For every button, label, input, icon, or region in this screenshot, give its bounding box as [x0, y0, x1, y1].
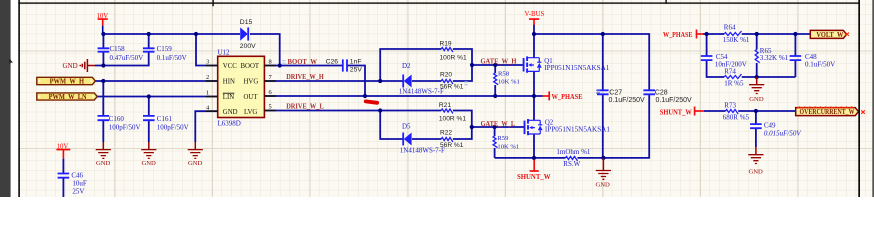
svg-text:LVG: LVG	[244, 109, 257, 116]
svg-text:D15: D15	[240, 19, 253, 26]
transistor Q2	[525, 119, 610, 135]
transistor Q1	[524, 56, 610, 72]
port VOLT_W	[810, 30, 849, 39]
svg-text:10K %1: 10K %1	[497, 143, 519, 150]
wire PWM_W_LN to pin1	[97, 96, 218, 98]
wire R65 leads	[756, 34, 758, 77]
svg-text:SHUNT_W: SHUNT_W	[660, 108, 692, 117]
svg-text:BOOT: BOOT	[241, 63, 260, 70]
wire GATE_W_H row	[472, 64, 524, 66]
wire 10V rail top	[103, 33, 240, 35]
svg-text:C28: C28	[655, 89, 668, 96]
wire C49 leads	[755, 111, 757, 147]
wire C161 leads	[148, 97, 150, 143]
pin 6 OUT	[264, 95, 276, 97]
svg-text:6: 6	[269, 89, 272, 96]
svg-text:GND: GND	[749, 169, 764, 176]
node LIN / C161	[147, 94, 151, 98]
wire D5/R22 branch	[380, 111, 472, 140]
capacitor C26 (bootstrap)	[326, 59, 363, 74]
wire HVG row pin7 to D2	[264, 80, 403, 82]
svg-text:3.32K %1: 3.32K %1	[760, 54, 789, 62]
wire R59 leads	[494, 127, 496, 158]
resistor R21	[439, 102, 466, 122]
node 10V rail / C158	[101, 32, 105, 36]
svg-text:GND: GND	[749, 96, 764, 103]
svg-text:0.1uF/250V: 0.1uF/250V	[656, 97, 693, 104]
svg-text:C46: C46	[71, 172, 83, 180]
resistor R59	[493, 135, 519, 150]
power port 10V (bottom)	[56, 143, 70, 158]
wire BOOT row pin8 to C26	[264, 65, 342, 67]
svg-text:VCC: VCC	[223, 63, 237, 70]
node SHUNT_W / Q2 source	[532, 156, 536, 160]
svg-text:GND: GND	[188, 160, 203, 167]
svg-text:BOOT_W: BOOT_W	[288, 57, 318, 66]
wire R58 leads	[494, 65, 496, 96]
wire GND* to C158/C159 bottoms	[95, 52, 149, 66]
svg-text:OUT: OUT	[244, 94, 259, 101]
ground symbol under C49	[748, 147, 763, 176]
node V-BUS / C27	[601, 32, 605, 36]
wires (dark navy)	[63, 25, 810, 198]
node R65 / R74 / C48 / GND	[755, 75, 759, 79]
wire C26 right to OUT row	[348, 66, 366, 97]
svg-text:R22: R22	[440, 130, 452, 137]
svg-text:8: 8	[269, 59, 272, 66]
wire C160 leads	[102, 81, 104, 142]
svg-text:GATE_W_H: GATE_W_H	[481, 56, 517, 65]
svg-text:0.1uF/50V: 0.1uF/50V	[157, 54, 187, 62]
power port 10V (top)	[97, 13, 109, 34]
node OUT / C26	[363, 94, 367, 98]
svg-text:5: 5	[269, 104, 272, 111]
svg-text:25V: 25V	[72, 187, 84, 195]
wire R21 to corner	[453, 111, 472, 128]
svg-text:1R %5: 1R %5	[724, 79, 744, 87]
svg-text:DRIVE_W_H: DRIVE_W_H	[286, 72, 324, 81]
pin 2 HIN	[206, 80, 218, 82]
svg-text:W_PHASE: W_PHASE	[663, 30, 693, 39]
port PWM_W_LN	[37, 93, 97, 101]
port OVERCURRENT_W	[796, 107, 865, 116]
svg-text:V-BUS: V-BUS	[525, 11, 545, 18]
svg-text:C160: C160	[109, 115, 125, 123]
wire pin4 to GND	[195, 111, 217, 142]
diode D5	[400, 123, 445, 155]
ground symbol R65/R74 node	[749, 77, 764, 103]
svg-text:3: 3	[206, 59, 209, 66]
svg-text:PWM_W_LN: PWM_W_LN	[49, 94, 87, 101]
svg-text:1N4148WS-7-F: 1N4148WS-7-F	[400, 147, 445, 155]
wire R74 to GND node	[742, 76, 796, 78]
capacitor C54	[701, 53, 747, 69]
svg-text:0.015uF/50V: 0.015uF/50V	[764, 129, 801, 137]
svg-text:R59: R59	[497, 135, 509, 142]
net label W_PHASE (right of OUT node)	[543, 91, 583, 101]
wire C46 leads	[62, 159, 64, 197]
pin 5 LVG	[264, 110, 276, 112]
svg-text:GATE_W_L: GATE_W_L	[481, 119, 516, 128]
capacitor C49	[750, 121, 801, 137]
svg-text:C161: C161	[157, 115, 173, 123]
wire shunt rail	[495, 95, 650, 158]
resistor R22	[440, 130, 464, 149]
wire Q1 source to OUT row	[533, 72, 535, 97]
wire Q2 drain	[533, 96, 535, 121]
node HVG / R19 branch	[378, 79, 382, 83]
resistor R58	[494, 70, 520, 85]
svg-text:W_PHASE: W_PHASE	[552, 92, 583, 101]
svg-text:56R %1: 56R %1	[440, 84, 464, 91]
wire GATE_W_L row	[472, 126, 525, 128]
ground symbol shunt rail	[596, 158, 612, 188]
mouse cursor	[9, 58, 13, 64]
node GATE_W_H / R19-R20	[470, 63, 474, 67]
svg-text:C159: C159	[157, 45, 173, 53]
capacitor C46	[58, 172, 87, 196]
svg-text:0.1uF/50V: 0.1uF/50V	[805, 61, 835, 69]
svg-text:GND: GND	[63, 62, 78, 70]
svg-text:Q1: Q1	[544, 58, 552, 65]
svg-text:25V: 25V	[350, 67, 363, 74]
wire Q2 source to shunt rail	[533, 135, 535, 158]
wire R19 branch	[380, 49, 472, 81]
svg-text:10K %1: 10K %1	[498, 78, 520, 85]
wire OUT row pin6 to W_PHASE	[264, 95, 542, 97]
wire mark dashes	[596, 90, 600, 94]
svg-text:C54: C54	[716, 53, 728, 61]
wire D15 cathode to BOOT corner	[250, 34, 280, 66]
node GATE_W_L / R59	[493, 125, 497, 129]
node GND / C158	[101, 63, 105, 67]
resistor R73	[723, 102, 750, 122]
resistor R65	[755, 47, 788, 63]
pin 8 BOOT	[264, 65, 276, 67]
diode D15	[240, 19, 256, 50]
pin 4 GND	[206, 110, 218, 112]
capacitor C159	[143, 45, 187, 62]
node V-BUS / Q1 drain	[532, 32, 536, 36]
op: U12 driver IC L6398D	[206, 49, 276, 128]
node BOOT pin8 / D15	[278, 63, 282, 67]
svg-text:RS.W: RS.W	[563, 160, 580, 168]
svg-text:VOLT_W: VOLT_W	[816, 32, 843, 39]
node R73 / C49	[754, 109, 758, 113]
svg-text:C26: C26	[326, 59, 339, 66]
svg-text:C48: C48	[805, 53, 817, 61]
node HIN / C160	[101, 79, 105, 83]
svg-text:200V: 200V	[240, 43, 256, 50]
net label SHUNT_W (to R73)	[660, 107, 704, 117]
svg-text:IPP051N15N5AKSA1: IPP051N15N5AKSA1	[544, 65, 609, 72]
svg-text:Q2: Q2	[545, 119, 554, 126]
ground symbol pin4	[188, 142, 203, 167]
node W_PHASE switch node	[532, 94, 536, 98]
ground symbol under C160	[96, 142, 111, 167]
capacitor C161	[143, 115, 189, 132]
svg-text:R74: R74	[724, 68, 736, 76]
diode D2	[399, 62, 444, 95]
power port GND* (rotated earth, left)	[63, 59, 96, 72]
node W_PHASE / R64 / C54	[705, 32, 709, 36]
svg-text:100R %1: 100R %1	[440, 55, 467, 62]
pin 1 LIN (active low)	[206, 96, 218, 98]
svg-text:D2: D2	[402, 62, 411, 70]
pin 7 HVG	[264, 80, 276, 82]
wire C158 top lead	[102, 34, 104, 48]
resistor R74	[724, 68, 744, 88]
svg-text:0.1uF/250V: 0.1uF/250V	[609, 97, 646, 104]
wire VCC branch pin3	[196, 34, 218, 66]
wire PWM_W_H to pin2	[95, 80, 218, 82]
capacitor C158	[98, 45, 144, 62]
svg-text:100pF/50V: 100pF/50V	[157, 124, 189, 132]
annotation red mark	[364, 99, 380, 105]
svg-text:C158: C158	[110, 45, 126, 53]
port PWM_W_H	[37, 77, 96, 85]
svg-text:PWM_W_H: PWM_W_H	[50, 78, 85, 85]
svg-text:10uF: 10uF	[72, 180, 87, 188]
svg-text:L6398D: L6398D	[218, 120, 241, 128]
svg-text:IPP051N15N5AKSA1: IPP051N15N5AKSA1	[545, 126, 610, 133]
wire D2 to R20 and corner up	[412, 65, 472, 81]
wire C54/R74 branch	[707, 34, 725, 77]
svg-text:GND: GND	[223, 109, 238, 116]
node R64 / R65	[755, 32, 759, 36]
svg-text:R73: R73	[724, 102, 736, 110]
wire C48 leads	[794, 34, 796, 77]
svg-text:HVG: HVG	[244, 79, 259, 86]
node GATE_W_H / R58	[493, 63, 497, 67]
svg-text:100R %1: 100R %1	[439, 115, 466, 122]
net label SHUNT_W (bottom, at Q2 source)	[517, 160, 551, 181]
wire V-BUS rail	[534, 25, 649, 91]
svg-text:GND: GND	[142, 160, 157, 167]
wire LVG row pin5 to R21	[264, 110, 441, 112]
wire C27 leads	[602, 34, 604, 158]
svg-text:100pF/50V: 100pF/50V	[109, 123, 141, 131]
power port V-BUS	[525, 11, 545, 25]
svg-text:2: 2	[206, 74, 209, 81]
svg-text:DRIVE_W_L: DRIVE_W_L	[286, 102, 324, 111]
wire C159 top lead	[148, 34, 150, 48]
svg-text:R58: R58	[498, 70, 510, 77]
svg-text:GND: GND	[596, 181, 611, 188]
net label W_PHASE (top right)	[663, 30, 703, 40]
node shunt rail / C27 / GND	[601, 156, 605, 160]
svg-text:D5: D5	[402, 123, 411, 131]
node 10V rail / C159	[147, 32, 151, 36]
svg-text:OVERCURRENT_W: OVERCURRENT_W	[800, 109, 855, 116]
wire SHUNT_W to R73	[704, 110, 796, 112]
svg-text:SHUNT_W: SHUNT_W	[517, 172, 551, 181]
pin 3 VCC	[206, 65, 218, 67]
node W_PHASE / R58	[493, 94, 497, 98]
svg-text:1N4148WS-7-F: 1N4148WS-7-F	[399, 87, 444, 95]
svg-text:0.47uF/50V: 0.47uF/50V	[110, 54, 144, 62]
svg-text:R64: R64	[724, 24, 736, 32]
node 10V rail / VCC branch	[194, 32, 198, 36]
wire W_PHASE to R64	[703, 33, 810, 35]
svg-text:C49: C49	[764, 121, 776, 129]
ground symbol under C161	[141, 142, 156, 167]
resistor R20	[440, 72, 464, 91]
svg-text:1nF: 1nF	[350, 59, 362, 66]
node GATE_W_L / R21-R22	[470, 125, 474, 129]
node rail / C48	[793, 32, 797, 36]
wire C158 bottom lead	[102, 52, 104, 66]
svg-text:56R %1: 56R %1	[440, 142, 464, 149]
node LVG / R22 branch	[378, 108, 382, 112]
svg-text:150K %1: 150K %1	[723, 36, 750, 44]
svg-text:C27: C27	[609, 89, 622, 96]
svg-text:1mOhm %1: 1mOhm %1	[556, 148, 591, 156]
svg-text:R20: R20	[440, 72, 452, 79]
capacitor C160	[98, 115, 141, 131]
svg-text:U12: U12	[218, 49, 231, 57]
svg-text:R19: R19	[440, 40, 452, 47]
svg-text:680R %5: 680R %5	[723, 114, 750, 122]
resistor R64	[723, 24, 750, 45]
svg-text:HIN: HIN	[223, 79, 235, 86]
capacitor C48	[790, 53, 836, 69]
shunt resistor RS.W	[556, 148, 591, 168]
svg-text:1: 1	[206, 90, 209, 97]
capacitor C27	[597, 89, 645, 104]
svg-text:LIN: LIN	[223, 94, 234, 101]
svg-text:R21: R21	[439, 102, 451, 109]
resistor R19	[440, 40, 467, 61]
svg-text:GND: GND	[96, 160, 111, 167]
capacitor C28	[643, 89, 692, 104]
